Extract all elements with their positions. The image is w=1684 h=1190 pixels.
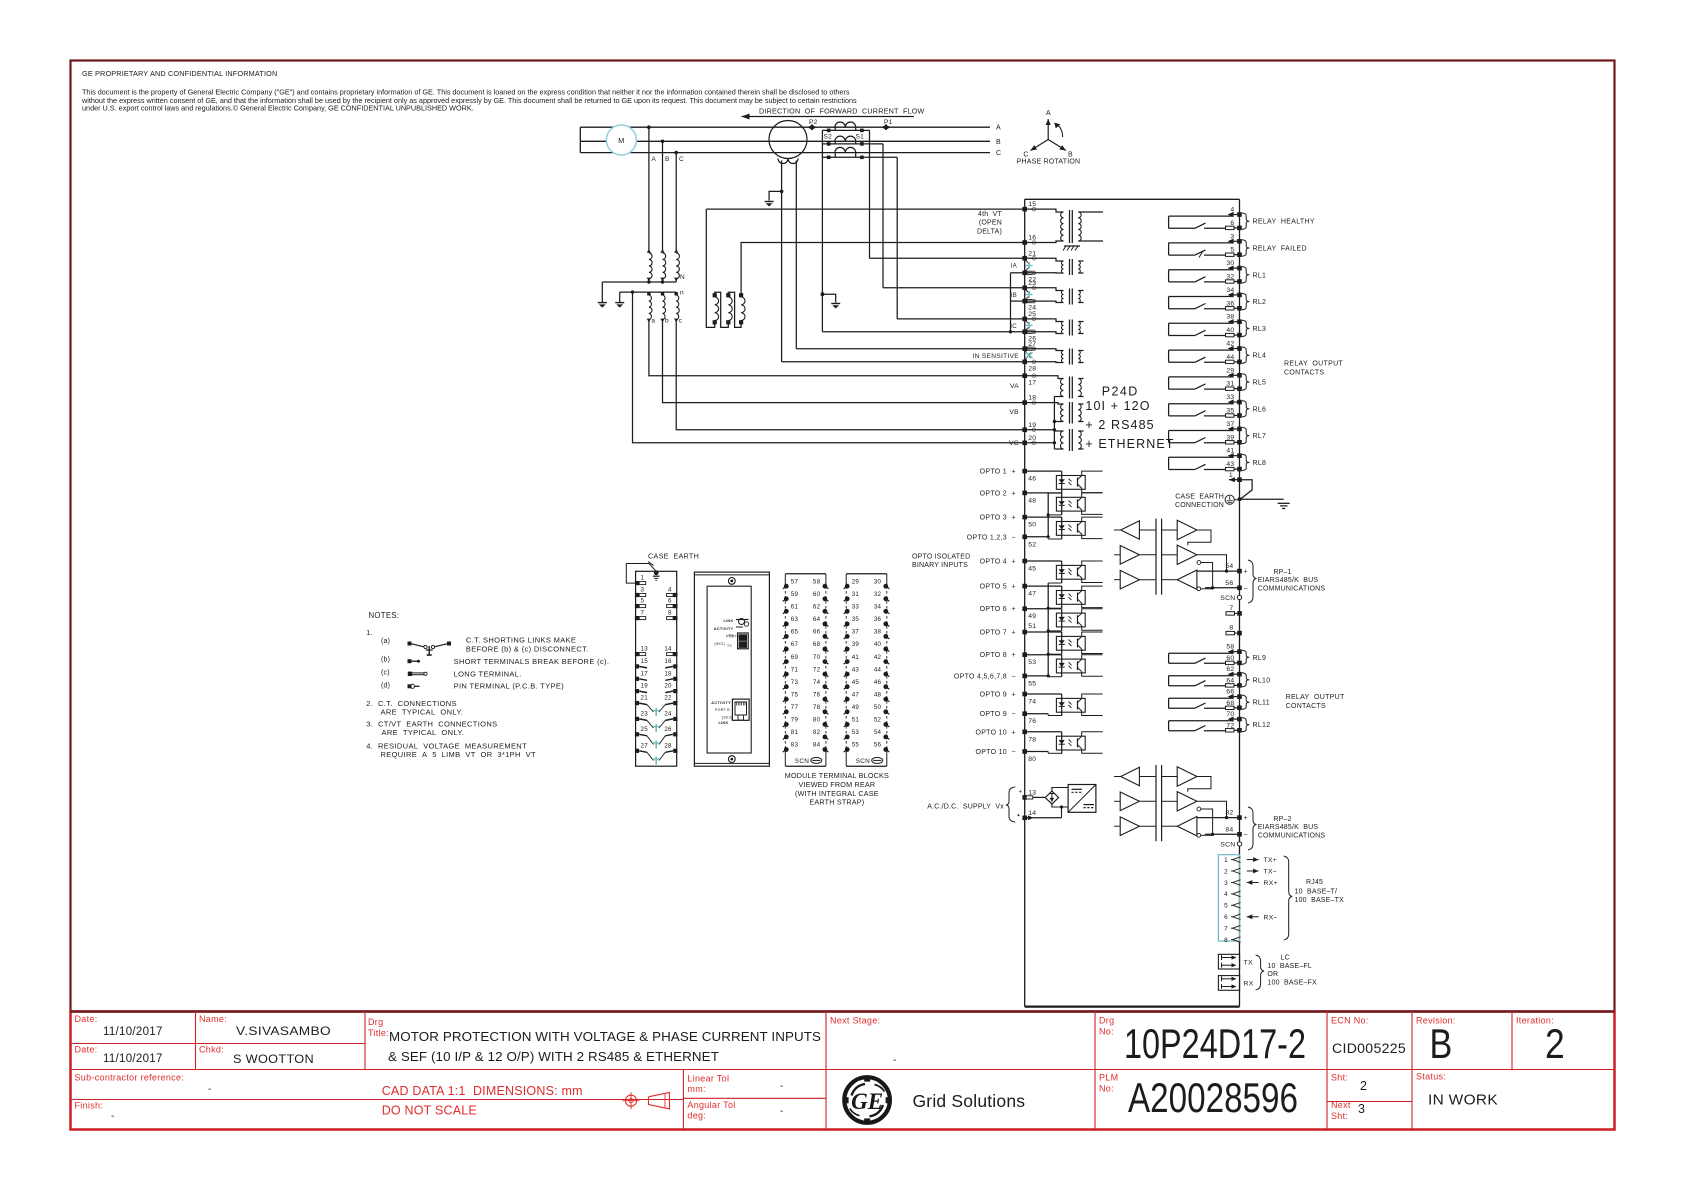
- transformer earth hatch: [1064, 245, 1080, 247]
- IB input transformer: [1025, 288, 1064, 291]
- wire S2 common to t26: [822, 331, 1024, 333]
- LC brace: [1256, 955, 1265, 990]
- opto group B minus bus: [1047, 583, 1049, 676]
- wire CT C S1 to t25: [896, 157, 898, 319]
- RJ45 connector: [1218, 855, 1239, 941]
- svg-text:DELTA): DELTA): [977, 229, 1002, 236]
- svg-text:7: 7: [1224, 926, 1228, 933]
- svg-text:OPTO 2: OPTO 2: [980, 490, 1007, 497]
- VT neutral bus N: [602, 281, 676, 283]
- svg-text:82: 82: [813, 729, 821, 736]
- svg-text:MODULE TERMINAL BLOCKS: MODULE TERMINAL BLOCKS: [785, 771, 889, 780]
- wire n to t20 VC: [633, 292, 1025, 443]
- svg-text:-: -: [780, 1081, 784, 1092]
- svg-text:OPTO 10: OPTO 10: [975, 729, 1007, 736]
- wire b to t18: [663, 321, 1025, 403]
- svg-text:34: 34: [1226, 287, 1234, 294]
- 4th VT open delta windings: [706, 209, 714, 327]
- svg-text:PHASE ROTATION: PHASE ROTATION: [1017, 159, 1081, 166]
- svg-text:26: 26: [664, 726, 672, 733]
- svg-text:c: c: [679, 318, 683, 325]
- svg-text:COMMUNICATIONS: COMMUNICATIONS: [1258, 586, 1326, 593]
- svg-text:C: C: [679, 156, 684, 163]
- svg-text:LC: LC: [1281, 955, 1290, 962]
- svg-text:5: 5: [641, 598, 645, 605]
- svg-text:+: +: [1012, 469, 1016, 476]
- svg-text:PLM: PLM: [1099, 1073, 1118, 1083]
- bus B: [580, 140, 990, 142]
- svg-text:64: 64: [1226, 677, 1234, 684]
- svg-text:CONNECTION: CONNECTION: [1175, 502, 1224, 509]
- relay contact RL4 terminals 42/44: [1169, 349, 1233, 351]
- opto 10 minus: [1025, 751, 1049, 753]
- svg-text:52: 52: [874, 717, 882, 724]
- svg-text:11/10/2017: 11/10/2017: [103, 1053, 163, 1065]
- svg-text:28: 28: [1028, 365, 1036, 372]
- strip pins 23/24: [635, 717, 639, 721]
- svg-text:73: 73: [791, 679, 799, 686]
- svg-text:75: 75: [791, 691, 799, 698]
- port B RJ45 jack: [732, 699, 749, 720]
- wire CT A S1 to t21: [869, 130, 871, 258]
- motor M1: [606, 125, 636, 155]
- phase CT C: [835, 147, 856, 152]
- relay failed NC tick: [1199, 251, 1203, 258]
- svg-text:A: A: [996, 125, 1001, 132]
- svg-text:31: 31: [1226, 381, 1234, 388]
- svg-text:SCN: SCN: [795, 758, 809, 765]
- IC input transformer: [1025, 319, 1064, 322]
- opto 9 minus: [1025, 713, 1049, 715]
- note symbol b: [408, 659, 412, 663]
- svg-text:27: 27: [1028, 341, 1036, 348]
- svg-text:OPTO 4,5,6,7,8: OPTO 4,5,6,7,8: [954, 673, 1007, 680]
- svg-text:mm:: mm:: [687, 1084, 705, 1094]
- terminal 22: [1022, 271, 1027, 276]
- svg-text:23: 23: [1028, 280, 1036, 287]
- wire CT B S1 to t23: [882, 144, 884, 288]
- svg-text:55: 55: [852, 742, 860, 749]
- svg-text:VA: VA: [1010, 383, 1019, 390]
- VT common link: [1053, 397, 1055, 450]
- opto 10 input: [1025, 731, 1062, 733]
- svg-text:GE: GE: [851, 1089, 883, 1114]
- svg-text:RELAY FAILED: RELAY FAILED: [1253, 246, 1307, 253]
- svg-text:CID005225: CID005225: [1332, 1041, 1406, 1056]
- svg-text:6: 6: [1230, 220, 1234, 227]
- svg-text:30: 30: [874, 578, 882, 585]
- port A LED: [739, 619, 745, 625]
- svg-text:& SEF (10 I/P & 12 O/P) WITH 2: & SEF (10 I/P & 12 O/P) WITH 2 RS485 & E…: [388, 1049, 719, 1064]
- svg-text:16: 16: [664, 658, 672, 665]
- svg-text:−: −: [1012, 673, 1016, 680]
- phase drop C: [675, 153, 677, 252]
- strip pins 17/18: [635, 677, 639, 681]
- svg-text:Title:: Title:: [368, 1028, 389, 1038]
- RP-1 brace: [1248, 560, 1257, 603]
- terminal 13: [1022, 795, 1027, 800]
- svg-text:A: A: [1046, 110, 1051, 117]
- svg-text:37: 37: [1226, 421, 1234, 428]
- svg-text:RL8: RL8: [1253, 460, 1267, 467]
- svg-text:LONG TERMINAL.: LONG TERMINAL.: [454, 670, 522, 679]
- svg-text:6: 6: [1224, 914, 1228, 921]
- svg-text:-: -: [111, 1111, 115, 1122]
- terminal 21: [1022, 256, 1027, 261]
- wire c to t19: [676, 321, 1024, 430]
- RJ45 brace: [1284, 856, 1293, 940]
- svg-text:EIARS485/K BUS: EIARS485/K BUS: [1258, 824, 1319, 831]
- svg-text:OR: OR: [1267, 971, 1278, 978]
- CT S2 common wire: [821, 130, 823, 331]
- svg-text:RP–2: RP–2: [1273, 816, 1291, 823]
- core CT secondary leads: [781, 161, 783, 362]
- svg-text:IA: IA: [1011, 263, 1018, 270]
- svg-text:−: −: [1012, 534, 1016, 541]
- GE logo: [844, 1077, 890, 1123]
- svg-text:ARE TYPICAL ONLY.: ARE TYPICAL ONLY.: [381, 708, 464, 717]
- svg-text:OPTO 9: OPTO 9: [980, 692, 1007, 699]
- svg-text:66: 66: [1226, 689, 1234, 696]
- svg-text:RX−: RX−: [1264, 914, 1278, 921]
- svg-text:3: 3: [641, 587, 645, 594]
- VC input transformer: [1061, 431, 1064, 449]
- direction arrow: [742, 116, 915, 118]
- svg-text:67: 67: [791, 641, 799, 648]
- svg-text:4: 4: [1230, 207, 1234, 214]
- svg-text:Linear Tol: Linear Tol: [687, 1074, 729, 1084]
- svg-text:LINK: LINK: [718, 721, 728, 725]
- svg-text:CONTACTS: CONTACTS: [1286, 703, 1326, 710]
- svg-text:GE PROPRIETARY AND CONFIDENTIA: GE PROPRIETARY AND CONFIDENTIAL INFORMAT…: [82, 69, 277, 78]
- svg-text:+: +: [1012, 692, 1016, 699]
- svg-text:b: b: [665, 318, 669, 325]
- svg-text:RX+: RX+: [1264, 880, 1278, 887]
- svg-text:8: 8: [668, 610, 672, 617]
- svg-text:66: 66: [813, 629, 821, 636]
- svg-text:64: 64: [813, 616, 821, 623]
- svg-text:51: 51: [1028, 623, 1036, 630]
- opto 1,2,3 common: [1025, 536, 1049, 538]
- svg-text:OPTO 4: OPTO 4: [980, 559, 1007, 566]
- rectifier wires: [1052, 788, 1068, 792]
- phase drop A: [648, 127, 650, 252]
- svg-text:50: 50: [1028, 522, 1036, 529]
- svg-text:100 BASE–FX: 100 BASE–FX: [1267, 979, 1317, 986]
- svg-text:56: 56: [1225, 580, 1233, 587]
- svg-text:76: 76: [813, 691, 821, 698]
- case earth symbol: [1225, 495, 1234, 504]
- svg-text:Next Stage:: Next Stage:: [830, 1016, 880, 1026]
- terminal block 57-84: [785, 573, 826, 575]
- phase drop B: [662, 141, 664, 252]
- svg-text:+: +: [1019, 789, 1023, 796]
- svg-text:84: 84: [1225, 826, 1233, 833]
- terminal 23: [1022, 286, 1027, 291]
- relay contact RELAY HEALTHY terminals 4/6: [1169, 215, 1233, 217]
- svg-text:V.SIVASAMBO: V.SIVASAMBO: [236, 1024, 331, 1038]
- svg-text:1: 1: [1229, 472, 1233, 479]
- svg-text:A20028596: A20028596: [1128, 1074, 1298, 1121]
- bus left end: [579, 127, 581, 152]
- svg-text:76: 76: [1028, 718, 1036, 725]
- svg-text:VC: VC: [1009, 440, 1019, 447]
- svg-text:21: 21: [1028, 250, 1036, 257]
- strip shorting links: [647, 705, 654, 712]
- terminal 16: [1022, 240, 1027, 245]
- svg-text:72: 72: [1226, 722, 1234, 729]
- svg-text:RELAY OUTPUT: RELAY OUTPUT: [1284, 361, 1343, 368]
- svg-text:43: 43: [852, 666, 860, 673]
- RJ45 TX RX arrows: [1247, 859, 1259, 861]
- rectifier bridge: [1033, 796, 1045, 798]
- svg-text:OPTO 6: OPTO 6: [980, 606, 1007, 613]
- svg-text:RP–1: RP–1: [1273, 569, 1291, 576]
- svg-text:56: 56: [874, 742, 882, 749]
- terminal 14: [1022, 816, 1027, 821]
- svg-text:60: 60: [1226, 655, 1234, 662]
- CT earth: [822, 294, 835, 302]
- svg-text:+: +: [1012, 630, 1016, 637]
- svg-text:70: 70: [1226, 711, 1234, 718]
- relay contact RL6 terminals 33/35: [1169, 403, 1233, 405]
- svg-text:42: 42: [1226, 341, 1234, 348]
- strip pins 7/8: [635, 616, 639, 620]
- svg-text:DO NOT SCALE: DO NOT SCALE: [382, 1104, 477, 1118]
- svg-text:44: 44: [874, 666, 882, 673]
- CT shorting links on rail: [1025, 259, 1030, 264]
- terminal 19: [1022, 428, 1027, 433]
- RP-2 brace: [1248, 807, 1257, 850]
- svg-text:2: 2: [1545, 1020, 1565, 1067]
- svg-text:17: 17: [1028, 379, 1036, 386]
- svg-text:[SK3]: [SK3]: [722, 716, 732, 720]
- svg-text:48: 48: [874, 691, 882, 698]
- svg-text:7: 7: [1229, 605, 1233, 612]
- relay contact RL9 terminals 58/60: [1169, 652, 1233, 654]
- svg-text:SCN: SCN: [1220, 595, 1235, 602]
- svg-text:63: 63: [791, 616, 799, 623]
- svg-text:(WITH INTEGRAL CASE: (WITH INTEGRAL CASE: [795, 789, 879, 798]
- svg-text:69: 69: [791, 654, 799, 661]
- svg-text:46: 46: [1028, 476, 1036, 483]
- IA input transformer: [1025, 258, 1064, 261]
- wire core CT to t28: [782, 361, 1025, 363]
- 4th VT input transformer: [1025, 209, 1064, 212]
- svg-text:55: 55: [1028, 680, 1036, 687]
- case earth ground wire: [1240, 498, 1284, 500]
- svg-text:33: 33: [1226, 394, 1234, 401]
- svg-text:36: 36: [1226, 300, 1234, 307]
- svg-text:[SK2]: [SK2]: [715, 642, 725, 646]
- svg-text:+: +: [1012, 729, 1016, 736]
- svg-text:59: 59: [791, 591, 799, 598]
- svg-text:N: N: [680, 274, 685, 281]
- svg-text:58: 58: [813, 578, 821, 585]
- svg-text:18: 18: [664, 670, 672, 677]
- svg-text:4: 4: [1224, 891, 1228, 898]
- svg-text:80: 80: [1028, 756, 1036, 763]
- strip pins 13/14: [635, 652, 639, 656]
- svg-text:OPTO 9: OPTO 9: [980, 711, 1007, 718]
- svg-text:1: 1: [1224, 857, 1228, 864]
- svg-text:4: 4: [668, 587, 672, 594]
- svg-text:SHORT TERMINALS BREAK BEFORE (: SHORT TERMINALS BREAK BEFORE (c).: [454, 657, 610, 666]
- svg-text:Status:: Status:: [1416, 1072, 1446, 1082]
- svg-text:EARTH STRAP): EARTH STRAP): [809, 798, 864, 807]
- svg-text:47: 47: [852, 691, 860, 698]
- svg-text:RL6: RL6: [1253, 406, 1267, 413]
- svg-text:CASE EARTH: CASE EARTH: [648, 552, 699, 561]
- svg-text:OPTO 8: OPTO 8: [980, 652, 1007, 659]
- strip pins 19/20: [635, 689, 639, 693]
- strip pins 27/28: [635, 749, 639, 753]
- svg-text:ACTIVITY: ACTIVITY: [714, 627, 734, 631]
- svg-text:−: −: [1244, 832, 1248, 839]
- svg-text:(d): (d): [381, 683, 390, 690]
- svg-text:60: 60: [813, 591, 821, 598]
- opto 4 input: [1025, 560, 1062, 562]
- svg-text:+: +: [1012, 652, 1016, 659]
- svg-text:-: -: [893, 1055, 897, 1066]
- svg-text:29: 29: [852, 578, 860, 585]
- svg-text:37: 37: [852, 629, 860, 636]
- opto 9 input: [1025, 693, 1062, 695]
- svg-text:(b): (b): [381, 657, 390, 664]
- relay contact RL7 terminals 37/39: [1169, 430, 1233, 432]
- terminal 26: [1022, 330, 1027, 335]
- svg-text:Drg: Drg: [1099, 1016, 1114, 1026]
- svg-text:CAD DATA 1:1 DIMENSIONS: mm: CAD DATA 1:1 DIMENSIONS: mm: [382, 1084, 583, 1098]
- svg-text:+ 2 RS485: + 2 RS485: [1085, 418, 1154, 432]
- svg-text:100 BASE–TX: 100 BASE–TX: [1295, 897, 1345, 904]
- VT secondary windings a b c: [648, 292, 650, 295]
- svg-text:2: 2: [1360, 1079, 1367, 1093]
- svg-text:18: 18: [1028, 395, 1036, 402]
- svg-text:(OPEN: (OPEN: [979, 220, 1002, 227]
- svg-text:17: 17: [641, 670, 649, 677]
- svg-text:P2: P2: [809, 119, 818, 126]
- opto 8 input: [1025, 654, 1062, 656]
- strip pins 25/26: [635, 732, 639, 736]
- svg-text:15: 15: [1028, 201, 1036, 208]
- svg-text:38: 38: [874, 629, 882, 636]
- svg-text:22: 22: [664, 695, 672, 702]
- svg-text:VIEWED FROM REAR: VIEWED FROM REAR: [799, 780, 876, 789]
- opto 2 input: [1025, 492, 1062, 494]
- svg-text:CASE EARTH: CASE EARTH: [1175, 494, 1224, 501]
- svg-text:10P24D17-2: 10P24D17-2: [1124, 1020, 1306, 1067]
- svg-text:ECN No:: ECN No:: [1331, 1016, 1369, 1026]
- svg-text:RL2: RL2: [1253, 299, 1267, 306]
- svg-text:7: 7: [641, 610, 645, 617]
- VB input transformer: [1061, 404, 1064, 422]
- svg-text:SCN: SCN: [856, 758, 870, 765]
- svg-text:COMMUNICATIONS: COMMUNICATIONS: [1258, 833, 1326, 840]
- svg-text:+: +: [1012, 584, 1016, 591]
- svg-text:2: 2: [1224, 868, 1228, 875]
- svg-text:32: 32: [1226, 274, 1234, 281]
- relay contact RL8 terminals 41/43: [1169, 456, 1233, 458]
- module rear view: [694, 572, 769, 766]
- svg-text:Sub-contractor reference:: Sub-contractor reference:: [75, 1073, 185, 1083]
- svg-text:65: 65: [791, 629, 799, 636]
- svg-text:C: C: [1023, 152, 1028, 159]
- relay contact RL5 terminals 29/31: [1169, 376, 1233, 378]
- svg-text:39: 39: [1226, 434, 1234, 441]
- svg-text:70: 70: [813, 654, 821, 661]
- svg-text:3: 3: [1224, 880, 1228, 887]
- svg-text:8: 8: [1229, 625, 1233, 632]
- svg-text:B: B: [665, 156, 670, 163]
- svg-text:IC: IC: [1010, 323, 1017, 330]
- svg-text:B: B: [1430, 1020, 1453, 1067]
- svg-text:LINK: LINK: [723, 619, 733, 623]
- svg-text:TX: TX: [727, 644, 732, 648]
- svg-text:+ ETHERNET: + ETHERNET: [1085, 437, 1174, 451]
- svg-text:24: 24: [664, 710, 672, 717]
- svg-text:BINARY INPUTS: BINARY INPUTS: [912, 562, 968, 569]
- VT secondary bus n: [620, 291, 677, 293]
- svg-text:35: 35: [852, 616, 860, 623]
- terminal 25: [1022, 317, 1027, 322]
- terminal 7: [1226, 612, 1235, 615]
- svg-text:39: 39: [852, 641, 860, 648]
- svg-text:(a): (a): [381, 638, 390, 645]
- svg-text:-: -: [208, 1084, 212, 1095]
- svg-text:VB: VB: [1009, 409, 1019, 416]
- wire open delta to t16: [741, 243, 1025, 296]
- svg-text:84: 84: [813, 742, 821, 749]
- phase rotation symbol: [1047, 119, 1049, 140]
- svg-text:OPTO 1: OPTO 1: [980, 469, 1007, 476]
- svg-text:+: +: [1012, 515, 1016, 522]
- svg-text:+: +: [1244, 569, 1248, 576]
- svg-text:B: B: [996, 139, 1001, 146]
- terminal block 29-56: [846, 573, 887, 575]
- relay contact RL12 terminals 70/72: [1169, 720, 1233, 722]
- port A fiber connector: [738, 633, 749, 649]
- title block: [71, 1012, 1615, 1130]
- svg-text:48: 48: [1028, 497, 1036, 504]
- svg-text:82: 82: [1225, 810, 1233, 817]
- svg-text:29: 29: [1226, 367, 1234, 374]
- svg-text:C: C: [996, 150, 1001, 157]
- svg-text:71: 71: [791, 666, 799, 673]
- opto 3 input: [1025, 516, 1062, 518]
- svg-text:IN SENSITIVE: IN SENSITIVE: [973, 353, 1020, 360]
- svg-text:52: 52: [1028, 541, 1036, 548]
- svg-text:OPTO 10: OPTO 10: [975, 749, 1007, 756]
- terminal 20: [1022, 441, 1027, 446]
- svg-text:P24D: P24D: [1102, 385, 1139, 399]
- VA input transformer: [1061, 379, 1064, 397]
- phase CT A: [835, 122, 856, 127]
- terminal 8: [1226, 631, 1235, 634]
- svg-text:68: 68: [813, 641, 821, 648]
- svg-text:27: 27: [641, 742, 649, 749]
- svg-text:RL10: RL10: [1253, 677, 1271, 684]
- svg-text:Name:: Name:: [199, 1014, 227, 1024]
- svg-text:4. RESIDUAL VOLTAGE MEASURE: 4. RESIDUAL VOLTAGE MEASUREMENT: [366, 742, 527, 751]
- svg-text:3: 3: [1230, 233, 1234, 240]
- svg-text:28: 28: [664, 742, 672, 749]
- svg-text:50: 50: [874, 704, 882, 711]
- svg-text:25: 25: [641, 726, 649, 733]
- svg-text:49: 49: [852, 704, 860, 711]
- svg-text:C.T. SHORTING LINKS MAKE: C.T. SHORTING LINKS MAKE: [466, 636, 576, 645]
- opto 4-8 common: [1025, 675, 1049, 677]
